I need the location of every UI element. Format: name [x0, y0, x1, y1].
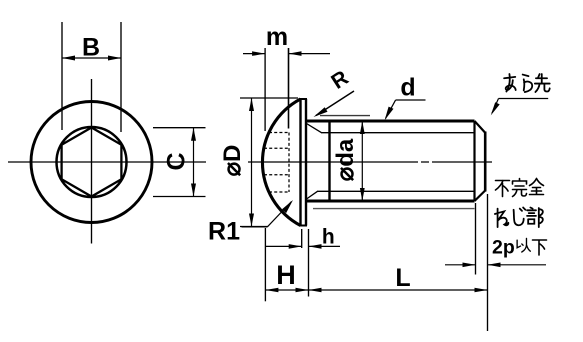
h dimension line left	[266, 244, 302, 249]
m extension line right	[288, 48, 290, 129]
chamfer edge bottom	[475, 191, 486, 202]
thread minor line bottom	[317, 190, 475, 192]
2p dimension line right	[488, 263, 547, 268]
R1 leader diagonal	[267, 200, 293, 227]
side view centerline	[248, 161, 514, 163]
phiD extension line bottom	[240, 226, 268, 228]
label 2p or less	[492, 237, 547, 259]
socket hidden line bottom inner	[264, 174, 289, 176]
head outer circle	[31, 102, 152, 223]
chamfer boundary	[473, 121, 475, 201]
C extension line bottom	[153, 196, 206, 198]
B dimension line	[62, 56, 121, 61]
ara-saki leader	[491, 99, 500, 116]
head dome arc	[262, 99, 300, 226]
B extension line right	[120, 22, 122, 132]
C extension line top	[153, 127, 206, 129]
thread end extension line	[475, 203, 477, 275]
tip face	[484, 132, 487, 192]
head top edge	[300, 98, 308, 100]
H dimension line	[265, 288, 308, 293]
glyph ra (hiragana)	[523, 75, 533, 92]
shank major diameter bottom	[306, 200, 475, 203]
2p dimension line left	[445, 263, 476, 268]
thread minor line top	[321, 132, 475, 134]
glyph saki (kanji)	[535, 74, 550, 92]
h extension line left	[301, 229, 303, 248]
head face front line	[299, 99, 301, 226]
shank major diameter top	[306, 120, 475, 123]
svg-text:⌀da: ⌀da	[332, 138, 359, 181]
h extension line right (shared with L)	[308, 229, 310, 297]
glyph bu	[527, 208, 543, 228]
m dimension line left	[243, 51, 265, 56]
svg-text:h: h	[322, 226, 335, 249]
label neji-bu (thread part)	[495, 208, 543, 228]
glyph ji	[514, 208, 526, 226]
glyph fu	[496, 181, 510, 197]
svg-text:⌀D: ⌀D	[219, 145, 246, 177]
svg-text:C: C	[163, 152, 191, 170]
m extension line left	[264, 48, 266, 131]
svg-text:H: H	[276, 260, 296, 290]
phiD dimension line	[249, 98, 254, 227]
socket hidden line top inner	[264, 147, 289, 149]
L dimension line	[309, 288, 488, 293]
glyph zen	[530, 179, 544, 195]
glyph a (hiragana)	[504, 74, 516, 91]
head bottom edge	[300, 225, 308, 227]
glyph ne	[495, 209, 508, 227]
d leader	[385, 100, 396, 120]
phiD extension line top	[240, 97, 298, 99]
glyph shita	[533, 240, 547, 255]
thread runout top	[307, 124, 322, 133]
d underline	[396, 99, 426, 101]
ara-saki underline	[499, 98, 549, 100]
label fukanzen (incomplete)	[496, 179, 544, 197]
svg-text:d: d	[400, 74, 415, 102]
svg-text:2p: 2p	[492, 237, 515, 259]
svg-text:B: B	[82, 34, 100, 62]
socket bottom hidden line	[288, 133, 290, 193]
screw tip extension line	[487, 194, 489, 331]
svg-text:m: m	[266, 23, 288, 51]
C dimension line	[191, 128, 196, 197]
H extension line left	[264, 228, 266, 301]
socket inner circle	[57, 127, 127, 197]
neck faint line top	[320, 115, 370, 117]
R1 leader horizontal	[242, 226, 268, 228]
socket hidden line bottom outer	[269, 191, 289, 193]
svg-text:R1: R1	[208, 218, 240, 246]
neck faint line bottom	[313, 208, 475, 210]
B extension line left	[61, 22, 63, 130]
R leader	[314, 91, 355, 117]
thread start boundary	[328, 121, 330, 201]
thread runout bottom	[307, 191, 318, 199]
svg-text:L: L	[395, 264, 410, 292]
vertical centerline	[91, 79, 93, 244]
label ara-saki (rough point)	[504, 74, 550, 92]
glyph i (mochiiru)	[517, 238, 530, 252]
socket hidden line top outer	[269, 132, 289, 134]
h dimension line right	[309, 244, 341, 249]
m dimension line right	[289, 51, 331, 56]
glyph kan	[513, 179, 527, 197]
head face back line	[305, 99, 307, 226]
horizontal centerline	[8, 161, 206, 163]
hex socket	[62, 128, 122, 197]
chamfer edge top	[475, 121, 486, 133]
phi da dimension line	[360, 121, 365, 201]
